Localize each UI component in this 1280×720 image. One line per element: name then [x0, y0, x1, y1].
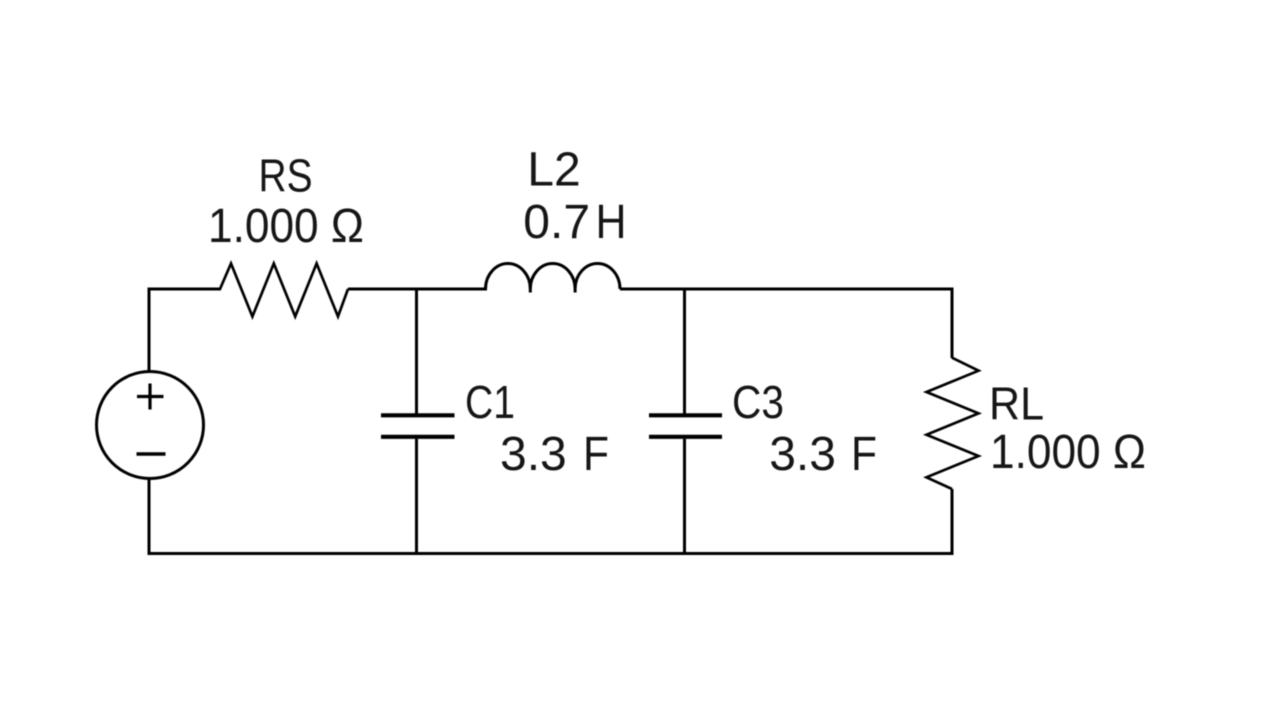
svg-text:C1: C1: [465, 376, 515, 428]
svg-text:1.000 Ω: 1.000 Ω: [990, 426, 1146, 479]
svg-text:F: F: [851, 428, 877, 481]
wire RS to L2: [348, 288, 487, 291]
svg-text:3.3: 3.3: [769, 428, 836, 481]
svg-text:H: H: [596, 196, 627, 249]
voltage source V1 circle: [97, 372, 204, 479]
wire top-left horizontal: [149, 288, 221, 291]
inductor L2 joint ticks: [530, 289, 575, 293]
svg-text:1.000 Ω: 1.000 Ω: [208, 200, 364, 253]
svg-text:RL: RL: [989, 378, 1044, 430]
node B stem (top of C3): [683, 288, 686, 414]
resistor RS: [220, 264, 348, 317]
svg-text:0.7: 0.7: [523, 196, 590, 249]
svg-text:RS: RS: [259, 150, 313, 202]
inductor L2: [486, 263, 621, 289]
node A stem (top of C1): [415, 288, 418, 414]
voltage source minus sign: [137, 452, 166, 456]
wire right rail bottom: [951, 489, 954, 555]
capacitor C1 bottom plate: [381, 435, 455, 439]
svg-text:L2: L2: [527, 144, 580, 197]
wire right rail top: [951, 288, 954, 359]
wire left rail top: [148, 288, 151, 373]
capacitor C1 top plate: [381, 413, 455, 417]
wire C3 bottom stem: [683, 439, 686, 555]
capacitor C3 top plate: [649, 413, 722, 417]
resistor RL: [927, 358, 979, 489]
svg-text:3.3: 3.3: [500, 428, 567, 481]
capacitor C3 bottom plate: [649, 435, 722, 439]
wire left rail bottom: [148, 478, 151, 555]
wire C1 bottom stem: [415, 439, 418, 555]
voltage source plus sign: [137, 384, 164, 410]
wire bottom rail: [148, 552, 954, 555]
svg-text:F: F: [583, 428, 609, 481]
svg-text:C3: C3: [732, 376, 784, 428]
wire L2 to right corner: [620, 288, 954, 291]
